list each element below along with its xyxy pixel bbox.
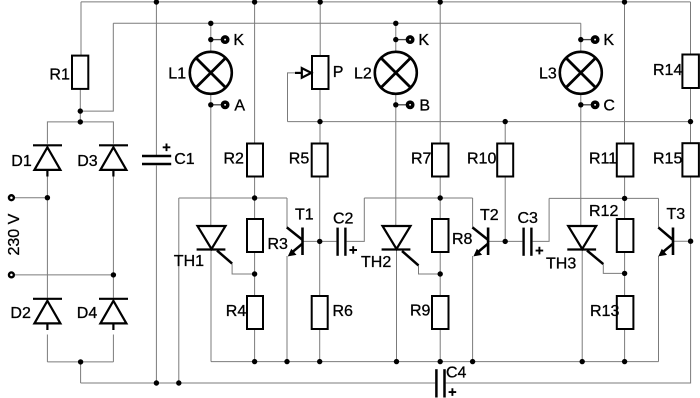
wire TH1 gate elbow to R3/R4 node: [232, 264, 255, 274]
svg-text:T1: T1: [295, 207, 314, 224]
wire R9 bottom to cathode rail: [439, 329, 441, 362]
diode D1: [11, 145, 62, 176]
lamp L2: [354, 52, 417, 94]
resistor R14: [682, 55, 699, 89]
wire T1 collector lead: [286, 198, 288, 227]
wire R14 bottom to rail node to R15 top: [690, 88, 692, 143]
wire top supply rail: [81, 1, 691, 3]
terminal 230V line 1: [9, 195, 14, 200]
terminal 230V line 2: [9, 272, 14, 277]
svg-text:TH3: TH3: [546, 256, 576, 273]
svg-text:L3: L3: [539, 66, 557, 83]
wire TH1 cathode lead: [210, 251, 212, 362]
node TH2 gate / R8-R9: [438, 271, 443, 276]
wire R1 bottom lead down to bridge top node: [79, 89, 81, 122]
node ground bus / C1: [154, 380, 159, 385]
svg-text:K: K: [418, 32, 429, 49]
wire R6 bottom to cathode rail: [319, 329, 321, 362]
terminal K of L1: [208, 32, 244, 49]
transistor T3: [658, 206, 685, 256]
wire thyristor cathode rail: [211, 361, 659, 363]
node anode rail / R10: [503, 119, 508, 124]
resistor R12: [617, 219, 634, 252]
node stage1 rail / R2-R3: [252, 195, 257, 200]
wire T2 emitter lead: [472, 256, 474, 362]
wire L1 top lead with K tap: [210, 23, 212, 51]
wire D1 anode to D2 cathode: [46, 177, 48, 298]
wire L1 bottom lead through A tap to TH1 anode: [210, 93, 212, 226]
node cathode rail / R9: [438, 359, 443, 364]
node cathode rail / R4: [252, 359, 257, 364]
wire R8 bottom to gate node to R9 top: [439, 252, 441, 296]
lamp L3: [539, 52, 602, 94]
wire 230V terminal 2 to D3/D4 node: [15, 274, 114, 276]
node cathode rail / TH3: [580, 359, 585, 364]
terminal B of L2: [393, 97, 430, 114]
wire L3 bottom lead to TH3 anode: [580, 93, 582, 226]
resistor R13: [617, 296, 634, 329]
wire L2 bottom lead to TH2 anode: [395, 93, 397, 226]
node bridge bottom: [78, 359, 83, 364]
capacitor C3: [518, 210, 544, 256]
node top rail / R11: [622, 0, 627, 5]
node top rail / P: [318, 0, 323, 5]
wire R4 bottom to cathode rail: [254, 329, 256, 362]
wire R7 top lead from top rail: [439, 2, 441, 144]
svg-text:R2: R2: [224, 151, 245, 168]
wire stage2 collector rail: [364, 197, 472, 199]
node TH3 gate / R12-R13: [622, 271, 627, 276]
wire T3 emitter lead: [658, 256, 660, 362]
svg-text:D4: D4: [77, 305, 98, 322]
svg-text:R9: R9: [410, 303, 431, 320]
svg-text:R12: R12: [589, 203, 618, 220]
svg-text:L1: L1: [168, 66, 186, 83]
transistor T1: [287, 207, 314, 257]
resistor R9: [432, 296, 449, 329]
svg-text:R6: R6: [333, 303, 354, 320]
wire bridge rectifier top connection D1-D3: [47, 122, 113, 144]
wire T1 base to C2 left plate: [303, 240, 337, 242]
terminal K of L3: [578, 32, 614, 49]
wire stage1 collector rail: [179, 197, 287, 199]
wire R7 bottom to stage2 rail: [439, 177, 441, 220]
svg-text:R4: R4: [226, 303, 247, 320]
wire ground bus left section: [81, 382, 436, 384]
transistor T2: [472, 207, 498, 256]
wire T3 collector lead: [658, 198, 660, 227]
resistor R6: [312, 296, 328, 329]
svg-text:C1: C1: [174, 151, 195, 168]
node cathode rail / T2 emitter: [470, 359, 475, 364]
diode D2: [10, 299, 62, 330]
node anode rail / P-R5: [317, 119, 322, 124]
wire C3 right plate to stage3 rail: [533, 198, 550, 241]
wire P wiper return down to anode rail: [288, 73, 296, 122]
wire R11 top lead from top rail: [624, 2, 626, 144]
lamp L1: [168, 52, 232, 94]
svg-text:R5: R5: [289, 151, 310, 168]
resistor R10: [497, 144, 513, 177]
node top rail / C1: [154, 0, 159, 5]
wire anode feed rail to R14/R15 node: [288, 121, 691, 123]
svg-text:A: A: [234, 97, 245, 114]
thyristor TH2: [361, 226, 419, 271]
svg-text:R13: R13: [590, 303, 619, 320]
svg-text:D1: D1: [11, 153, 32, 170]
svg-text:R15: R15: [653, 151, 682, 168]
wire lamp K rail: [113, 22, 581, 24]
node cathode rail / TH2: [394, 359, 399, 364]
thyristor TH1: [174, 226, 232, 270]
svg-text:K: K: [233, 32, 244, 49]
svg-text:TH2: TH2: [361, 254, 391, 271]
wire R13 bottom to cathode rail: [624, 329, 626, 362]
wire T2 collector lead: [472, 198, 474, 227]
wire R10 bottom to T2 base node: [504, 177, 506, 242]
wire P bottom lead to R5 top: [319, 89, 321, 144]
wire stage3 collector rail: [549, 197, 658, 199]
node R1 / bridge top: [78, 119, 83, 124]
wire stage1 left edge from rail down to ground bus: [178, 198, 180, 383]
wire D4 anode down: [112, 335, 114, 362]
wire R3 bottom to gate node to R4 top: [254, 252, 256, 296]
resistor R8: [432, 219, 449, 252]
wire D2 anode down: [46, 335, 48, 362]
svg-text:B: B: [419, 97, 430, 114]
node R1 bottom / K rail branch: [78, 108, 83, 113]
capacitor C2: [333, 211, 357, 256]
wire R12 bottom to gate node to R13 top: [624, 252, 626, 296]
svg-text:C2: C2: [333, 211, 354, 228]
node 230V line1 / D1-D2: [45, 195, 50, 200]
resistor R11: [617, 144, 634, 177]
capacitor C1: [142, 144, 195, 169]
resistor R15: [682, 143, 699, 176]
svg-text:TH1: TH1: [174, 253, 204, 270]
svg-text:T3: T3: [667, 206, 686, 223]
diode D3: [77, 145, 128, 176]
wire T2 base to C3 left plate: [489, 240, 522, 242]
node stage3 rail / R11-R12: [622, 196, 627, 201]
terminal K of L2: [393, 32, 429, 49]
node cathode rail / R13: [622, 359, 627, 364]
wire TH3 gate elbow to R12/R13 node: [603, 264, 624, 273]
wire R5 bottom to T1 base node to R6 top: [319, 177, 321, 297]
svg-text:L2: L2: [354, 66, 372, 83]
wire R10 top lead from anode rail: [504, 122, 506, 144]
node top rail / R7: [438, 0, 443, 5]
svg-text:K: K: [603, 32, 614, 49]
resistor R3: [247, 219, 263, 252]
node ground bus / stage1 left edge: [176, 380, 181, 385]
svg-text:C3: C3: [518, 210, 539, 227]
node cathode rail / T1 emitter: [284, 359, 289, 364]
svg-text:C: C: [603, 97, 615, 114]
svg-text:R10: R10: [467, 151, 496, 168]
node K rail / L1: [208, 21, 213, 26]
wire TH3 cathode lead: [581, 251, 583, 362]
terminal A of L1: [208, 97, 245, 114]
node TH1 gate / R3-R4: [252, 271, 257, 276]
node top rail / R2: [252, 0, 257, 5]
svg-text:R1: R1: [49, 67, 70, 84]
node cathode rail / R6: [317, 359, 322, 364]
node K rail / L2: [393, 21, 398, 26]
resistor R5: [312, 144, 328, 177]
svg-text:R7: R7: [411, 151, 432, 168]
wire R11 bottom to stage3 rail: [624, 177, 626, 220]
thyristor TH3: [546, 226, 603, 273]
wire R14 top lead from top rail: [690, 2, 692, 55]
svg-text:C4: C4: [446, 365, 467, 382]
wire T1 emitter lead: [286, 256, 288, 362]
node T2 base / R10: [503, 239, 508, 244]
node T3 base / R15: [688, 239, 693, 244]
svg-text:T2: T2: [480, 207, 499, 224]
node stage2 rail / R7-R8: [438, 195, 443, 200]
node 230V line2 / D3-D4: [111, 272, 116, 277]
wire L2 top lead: [395, 23, 397, 51]
resistor R4: [247, 296, 263, 329]
svg-text:P: P: [333, 64, 344, 81]
node anode rail / R14-R15: [688, 119, 693, 124]
wire 230V terminal 1 to D1/D2 node: [15, 197, 48, 199]
wire R2 bottom to stage1 rail: [254, 177, 256, 220]
wire bridge bottom node down to ground bus: [80, 362, 82, 383]
wire C1 bottom lead: [155, 166, 157, 384]
wire P top lead from top rail: [319, 2, 321, 56]
potentiometer P wiper arrow: [295, 72, 301, 74]
terminal C of L3: [578, 97, 615, 114]
wire R2 top lead from top rail: [254, 2, 256, 144]
wire TH2 cathode lead: [396, 251, 398, 362]
wire ground bus right section up to T3 base node: [446, 241, 691, 383]
svg-text:R3: R3: [268, 236, 289, 253]
wire bridge bottom joining D2-D4: [47, 361, 113, 363]
wire L3 top lead: [580, 23, 582, 51]
resistor R1: [72, 56, 88, 89]
wire C1 top lead: [155, 2, 157, 155]
resistor R2: [247, 144, 263, 177]
diode D4: [77, 299, 128, 330]
resistor R7: [432, 144, 449, 177]
wire D3 anode to D4 cathode: [112, 177, 114, 298]
wire from R1 bottom node right and up to lamp K rail: [80, 23, 113, 111]
wire C2 right plate to stage2 rail: [347, 198, 365, 241]
wire T3 base to R15 line: [674, 240, 691, 242]
svg-text:R11: R11: [589, 151, 617, 168]
svg-text:R14: R14: [653, 62, 682, 79]
svg-text:D3: D3: [77, 153, 98, 170]
node T1 base / R5-R6: [317, 239, 322, 244]
potentiometer P body: [312, 56, 329, 89]
wire TH2 gate elbow to R8/R9 node: [419, 265, 441, 274]
svg-text:R8: R8: [452, 231, 473, 248]
wire R1 top lead from top rail: [80, 2, 82, 56]
svg-text:D2: D2: [10, 305, 31, 322]
svg-text:230 V: 230 V: [6, 213, 23, 255]
capacitor C4: [436, 365, 466, 398]
wire R15 bottom lead down: [690, 177, 692, 242]
